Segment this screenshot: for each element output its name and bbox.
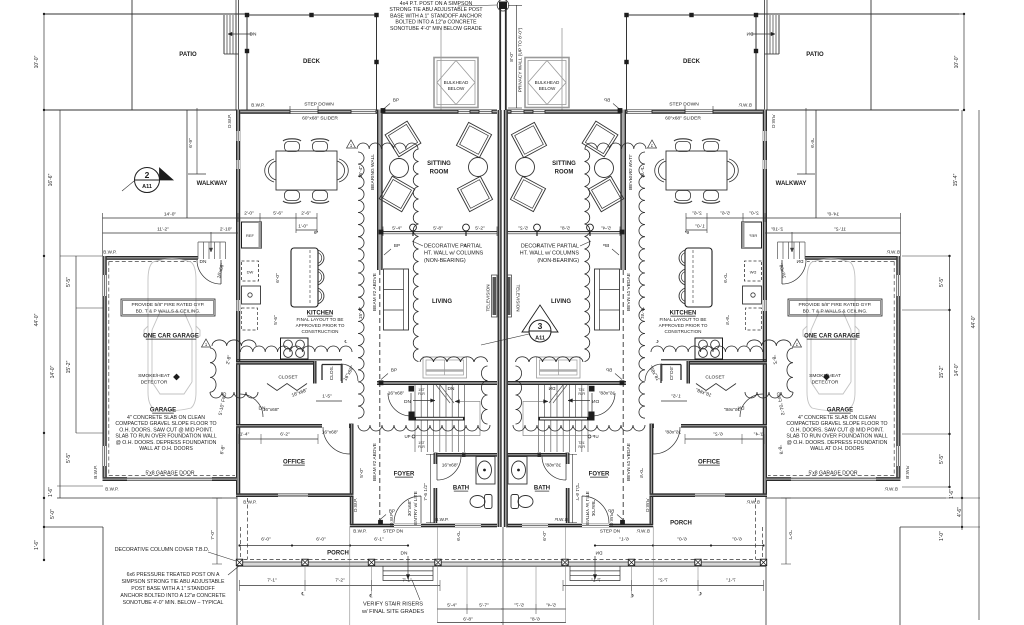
svg-text:℄: ℄: [344, 339, 348, 344]
svg-text:REF: REF: [246, 233, 255, 238]
wall: bath west: [434, 453, 438, 464]
step-down tick marks: [289, 106, 291, 114]
svg-text:FINAL LAYOUT TO BE: FINAL LAYOUT TO BE: [297, 317, 344, 322]
svg-text:1'-4": 1'-4": [240, 432, 250, 438]
entry door opening: [394, 524, 421, 527]
stair window bay above: [423, 357, 467, 378]
deck post: [245, 49, 249, 53]
island stool: [318, 269, 324, 285]
svg-text:5'-0": 5'-0": [359, 468, 365, 478]
svg-text:WALL AT O.H. DOORS: WALL AT O.H. DOORS: [810, 446, 864, 452]
deck post: [309, 13, 313, 17]
svg-text:B.W.P.: B.W.P.: [435, 517, 448, 522]
svg-text:SIMPSON STRONG TIE ABU ADJUSTA: SIMPSON STRONG TIE ABU ADJUSTABLE: [121, 579, 225, 585]
svg-text:15'-9": 15'-9": [358, 307, 364, 320]
svg-text:BELOW: BELOW: [448, 86, 465, 91]
svg-text:CLOS.: CLOS.: [329, 366, 335, 380]
wall: south entry wall: [350, 524, 497, 528]
bearing point square: [381, 108, 386, 113]
left dim extension: [76, 432, 103, 434]
stair DN arrow: [413, 400, 435, 402]
door: small closet swing: [341, 364, 358, 381]
car outline (garage): [144, 259, 200, 411]
bulkhead leader vertical: [440, 28, 442, 110]
svg-text:TELEVISION: TELEVISION: [486, 284, 491, 311]
wall: small closet: [322, 365, 342, 384]
svg-text:CLOSET: CLOSET: [278, 375, 297, 381]
door: closet bifold chevrons: [267, 384, 307, 391]
svg-text:SLAB TO RUN OVER FOUNDATION WA: SLAB TO RUN OVER FOUNDATION WALL: [115, 434, 216, 440]
left dim extension: [60, 255, 103, 257]
sitting dim line: [383, 228, 497, 230]
wall: foyer north: [377, 381, 497, 385]
svg-text:4" CONCRETE SLAB ON CLEAN: 4" CONCRETE SLAB ON CLEAN: [127, 415, 205, 421]
vertical guide below bath: [437, 527, 439, 623]
window/slider opening in north wall: [290, 110, 318, 113]
bearing point square: [379, 230, 384, 235]
svg-text:6'-0": 6'-0": [542, 531, 548, 541]
right dim tick: [948, 309, 950, 311]
sitting room chair: [457, 176, 492, 211]
svg-text:WALKWAY: WALKWAY: [197, 181, 228, 187]
dim line office: [239, 438, 318, 440]
property vertical x=103 to bottom: [102, 527, 104, 625]
svg-text:DETECTOR: DETECTOR: [141, 380, 168, 386]
porch post: [368, 559, 374, 565]
svg-text:15'-2": 15'-2": [939, 365, 945, 378]
dining chair side: [337, 161, 345, 180]
wall: office east extension to porch: [350, 497, 354, 524]
svg-text:BEARING WALL: BEARING WALL: [370, 154, 376, 190]
porch post drop lines: [304, 566, 306, 586]
svg-text:OFFICE: OFFICE: [698, 460, 720, 466]
svg-text:BP: BP: [393, 98, 399, 103]
dim line closet: [316, 400, 342, 402]
sitting room side table: [390, 159, 409, 178]
privacy wall post (top): [499, 2, 507, 10]
svg-text:DETECTOR: DETECTOR: [812, 380, 839, 386]
door: entry swing: [394, 496, 421, 523]
svg-text:44'-0": 44'-0": [971, 315, 977, 328]
svg-text:ONE CAR GARAGE: ONE CAR GARAGE: [804, 334, 860, 340]
svg-text:15'-2": 15'-2": [66, 360, 72, 373]
svg-text:10'-0": 10'-0": [34, 55, 40, 68]
garage wall inner dashed line: [108, 262, 110, 476]
dim line bottom center row1: [437, 608, 502, 610]
svg-text:TELEVISION: TELEVISION: [516, 284, 521, 311]
svg-text:STEP DN: STEP DN: [383, 529, 403, 534]
window opening in west wall: [237, 300, 240, 311]
svg-text:WALL AT O.H. DOORS: WALL AT O.H. DOORS: [139, 446, 193, 452]
triangle flag 1 (garage): [202, 339, 211, 347]
svg-text:w/ FINAL SITE GRADES: w/ FINAL SITE GRADES: [361, 609, 424, 615]
svg-text:@ O.H. DOORS. DEPRESS FOUNDAT: @ O.H. DOORS. DEPRESS FOUNDATION: [116, 440, 217, 446]
bath sink bowl: [478, 461, 492, 479]
right dim tick: [963, 109, 965, 111]
leader 6x6 note: [228, 566, 239, 575]
svg-text:ENTRY w/ LITE: ENTRY w/ LITE: [413, 491, 419, 525]
sitting room chair: [379, 176, 415, 212]
wall: office north: [236, 424, 322, 428]
island stool: [318, 250, 324, 266]
svg-text:B.W.P.: B.W.P.: [103, 250, 116, 255]
svg-text:BATH: BATH: [534, 486, 550, 492]
svg-text:UP: UP: [404, 434, 410, 439]
bulkhead below: outer rect: [434, 58, 478, 108]
svg-text:5'-5": 5'-5": [66, 453, 72, 463]
wall: office south: [236, 493, 354, 497]
right dim tick: [961, 526, 963, 528]
svg-text:PATIO: PATIO: [806, 52, 824, 58]
island stool: [318, 288, 324, 304]
svg-text:HT. WALL w/ COLUMNS: HT. WALL w/ COLUMNS: [424, 251, 484, 257]
dining chair side: [268, 161, 276, 180]
partial wall dim line: [382, 227, 384, 237]
svg-text:DN: DN: [259, 406, 266, 412]
svg-text:5'-8": 5'-8": [433, 226, 443, 232]
yard line at y=498: [57, 497, 237, 499]
dim line porch row1: [240, 545, 409, 547]
svg-text:1'-5": 1'-5": [322, 394, 332, 400]
dim line porch row2: [240, 585, 441, 587]
svg-text:HT. WALL w/ COLUMNS: HT. WALL w/ COLUMNS: [520, 251, 580, 257]
svg-text:PROVIDE 5/8" FIRE RATED GYP.: PROVIDE 5/8" FIRE RATED GYP.: [132, 302, 205, 308]
svg-text:BP: BP: [394, 243, 400, 248]
porch front edge dashed: [237, 559, 502, 561]
svg-text:FLR: FLR: [418, 445, 425, 449]
bulkhead below: inner rect: [437, 61, 475, 105]
kitchen island: [291, 248, 318, 307]
svg-text:6'-8": 6'-8": [463, 617, 473, 623]
right dim vertical inner: [949, 256, 951, 487]
window/slider opening in north wall: [351, 110, 376, 113]
svg-text:STEP DN: STEP DN: [600, 529, 620, 534]
section marker 3/A11: [522, 305, 558, 332]
svg-text:B.W.P.: B.W.P.: [93, 465, 98, 478]
garage door opening: [127, 477, 212, 480]
svg-text:CONSTRUCTION: CONSTRUCTION: [664, 329, 701, 334]
svg-text:GARAGE: GARAGE: [827, 408, 853, 414]
door jambs bath north: [434, 453, 438, 457]
door: kitchen hall swing: [323, 427, 350, 454]
left dim tick: [43, 255, 45, 257]
svg-text:ROOM: ROOM: [555, 170, 574, 176]
svg-text:15'-4": 15'-4": [358, 166, 364, 179]
svg-text:7'-6 1/2": 7'-6 1/2": [423, 483, 429, 501]
svg-text:DN: DN: [250, 32, 257, 38]
svg-text:(NON-BEARING): (NON-BEARING): [424, 258, 466, 264]
stove: [281, 338, 309, 359]
stair break diagonals: [436, 385, 450, 403]
svg-text:5'-6": 5'-6": [273, 315, 279, 325]
svg-text:30"x68": 30"x68": [407, 499, 413, 516]
fire-rated note box: [788, 299, 882, 316]
kitchen sink: [242, 286, 261, 304]
svg-text:FOYER: FOYER: [394, 472, 415, 478]
svg-text:DN: DN: [404, 399, 411, 405]
revision cloud around bearing wall / kitchen: [358, 152, 364, 418]
kitchen counter edge: [237, 359, 342, 361]
svg-text:2'-6": 2'-6": [301, 211, 311, 217]
svg-text:BULKHEAD: BULKHEAD: [444, 80, 469, 85]
porch steps: [383, 566, 433, 580]
revision cloud top of stairs: [420, 357, 488, 362]
svg-text:PORCH: PORCH: [670, 521, 692, 527]
door: foyer-kitchen swing: [388, 393, 411, 416]
window/slider opening in north wall: [479, 110, 492, 113]
right dim tick: [963, 13, 965, 15]
svg-text:A11: A11: [142, 184, 152, 190]
walkway west boundary line: [186, 110, 188, 218]
svg-text:6'-0": 6'-0": [316, 537, 326, 543]
svg-text:1'-6": 1'-6": [34, 540, 40, 550]
svg-text:BD. T & P WALLS & CEILING.: BD. T & P WALLS & CEILING.: [803, 309, 868, 315]
dining chair: [313, 191, 328, 201]
svg-text:2'-10": 2'-10": [220, 227, 233, 233]
svg-text:LIVING: LIVING: [551, 299, 571, 305]
leader from post note: [458, 5, 497, 6]
svg-text:44'-0": 44'-0": [34, 313, 40, 326]
svg-text:O.H. DOORS. SAW CUT @ MID POIN: O.H. DOORS. SAW CUT @ MID POINT.: [119, 427, 212, 433]
porch post: [435, 559, 441, 565]
section marker 2/A11: [135, 168, 160, 193]
walkway dim: [196, 108, 198, 174]
svg-text:KITCHEN: KITCHEN: [670, 311, 697, 317]
svg-text:SONOTUBE 4'-0" MIN BELOW GRADE: SONOTUBE 4'-0" MIN BELOW GRADE: [390, 26, 482, 32]
decorative partial-height wall: [383, 231, 497, 233]
svg-text:FINAL LAYOUT TO BE: FINAL LAYOUT TO BE: [660, 317, 707, 322]
svg-text:PORCH: PORCH: [327, 551, 349, 557]
right dim tick: [948, 486, 950, 488]
patio stair side: [223, 15, 225, 54]
wall: bath north: [434, 453, 498, 457]
svg-text:ONE CAR GARAGE: ONE CAR GARAGE: [143, 334, 199, 340]
dining chair: [285, 142, 300, 152]
svg-text:7'-1": 7'-1": [267, 578, 277, 584]
dining table: [276, 151, 337, 190]
right unit (mirrored copy of left unit): [455, 0, 960, 625]
porch post: [302, 559, 308, 565]
svg-text:FOYER: FOYER: [589, 472, 610, 478]
revision cloud top chain: [357, 143, 418, 149]
window opening in west wall: [237, 131, 240, 141]
smoke detector symbol: [174, 374, 180, 380]
svg-text:BD. T & P WALLS & CEILING.: BD. T & P WALLS & CEILING.: [136, 309, 201, 315]
left dim tick: [43, 559, 45, 561]
svg-text:PRIVACY WALL (UP TO 8'-0"): PRIVACY WALL (UP TO 8'-0"): [518, 27, 524, 92]
window opening in west wall: [237, 160, 240, 169]
wall: office east: [350, 424, 354, 497]
right dim extension: [960, 526, 980, 528]
bath sink counter: [476, 457, 495, 485]
dim line kitchen sub: [296, 229, 317, 231]
dining chair: [313, 142, 328, 152]
left dim vertical inner2: [75, 256, 77, 433]
svg-text:COMPACTED GRAVEL SLOPE FLOOR T: COMPACTED GRAVEL SLOPE FLOOR TO: [115, 421, 216, 427]
window opening in office south wall: [278, 494, 308, 497]
left dim tick: [43, 432, 45, 434]
left dim vertical 44'-0": [43, 14, 45, 560]
column on partial wall: [463, 224, 470, 231]
svg-text:5'x8 GARAGE DOOR: 5'x8 GARAGE DOOR: [145, 471, 194, 477]
porch front band: [237, 562, 502, 566]
deck outline: [247, 15, 377, 110]
base cabinets (dashed): [242, 308, 258, 330]
svg-text:SMOKE/HEAT: SMOKE/HEAT: [809, 373, 841, 379]
svg-text:BEAM #2 ABOVE: BEAM #2 ABOVE: [372, 443, 378, 481]
svg-text:16"x68": 16"x68": [322, 430, 339, 436]
svg-text:B.W.P.: B.W.P.: [243, 500, 256, 505]
svg-text:APPROVED PRIOR TO: APPROVED PRIOR TO: [296, 323, 345, 328]
left dim extension: [76, 307, 103, 309]
svg-text:BP: BP: [389, 509, 395, 514]
dim line bottom center row2: [437, 622, 502, 624]
svg-text:5'-5": 5'-5": [939, 277, 945, 287]
svg-text:15'-4": 15'-4": [953, 173, 959, 186]
svg-text:DN: DN: [401, 551, 408, 557]
stair stringer bar: [415, 417, 465, 421]
svg-text:14'-0": 14'-0": [50, 365, 56, 378]
svg-text:APPROVED PRIOR TO: APPROVED PRIOR TO: [659, 323, 708, 328]
svg-text:5'-6": 5'-6": [273, 211, 283, 217]
dishwasher (dashed): [242, 261, 259, 281]
right dim vertical top: [963, 14, 965, 110]
wall: closet north: [236, 361, 317, 365]
svg-text:6'-2": 6'-2": [280, 432, 290, 438]
svg-text:SMOKE/HEAT: SMOKE/HEAT: [138, 373, 170, 379]
svg-text:16"x68": 16"x68": [388, 391, 405, 397]
right dim vertical 14'-0": [961, 110, 963, 530]
svg-text:BASE WITH A 1" STANDOFF ANCHOR: BASE WITH A 1" STANDOFF ANCHOR: [390, 13, 482, 19]
svg-text:VERIFY STAIR RISERS: VERIFY STAIR RISERS: [363, 602, 423, 608]
svg-text:DN: DN: [200, 259, 207, 265]
svg-text:SLAB TO RUN OVER FOUNDATION WA: SLAB TO RUN OVER FOUNDATION WALL: [786, 434, 887, 440]
toilet: [470, 496, 485, 508]
site line: patio left vertical: [131, 0, 133, 110]
svg-text:5'-5": 5'-5": [939, 454, 945, 464]
left dim tick: [43, 526, 45, 528]
privacy wall above units: [499, 9, 501, 110]
porch post: [236, 559, 242, 565]
svg-text:B.W.P.: B.W.P.: [251, 103, 264, 108]
svg-text:11'-2": 11'-2": [157, 227, 169, 233]
patio stair treads: [223, 15, 225, 54]
left unit graphics: [43, 0, 548, 625]
svg-text:CLOSET: CLOSET: [705, 375, 724, 381]
yard line at y=527: [43, 526, 103, 528]
svg-text:1'-6": 1'-6": [949, 489, 955, 499]
svg-text:4" CONCRETE SLAB ON CLEAN: 4" CONCRETE SLAB ON CLEAN: [798, 415, 876, 421]
television: [493, 277, 497, 315]
svg-text:ANCHOR BOLTED INTO A 12"ø CONC: ANCHOR BOLTED INTO A 12"ø CONCRETE: [120, 593, 226, 599]
svg-text:DECK: DECK: [683, 59, 701, 65]
svg-text:3: 3: [538, 321, 543, 331]
svg-text:FLR: FLR: [418, 392, 425, 396]
revision cloud right chain: [413, 149, 418, 362]
party wall (double) between units: [498, 110, 502, 527]
window opening in bath south wall: [455, 524, 481, 527]
right dim extension: [902, 433, 950, 435]
dining chair: [285, 191, 300, 201]
svg-text:(NON-BEARING): (NON-BEARING): [537, 258, 579, 264]
leader decorative wall L: [412, 241, 423, 246]
sitting room chair: [385, 121, 421, 157]
svg-text:STEP DOWN: STEP DOWN: [669, 102, 699, 108]
svg-text:SONOTUBE 4'-0" MIN. BELOW – TY: SONOTUBE 4'-0" MIN. BELOW – TYPICAL: [123, 600, 224, 606]
svg-text:2: 2: [145, 170, 150, 180]
svg-text:4x4 P.T. POST ON A SIMPSON: 4x4 P.T. POST ON A SIMPSON: [400, 1, 473, 7]
svg-text:D.W.P.: D.W.P.: [389, 512, 394, 526]
dim line garage/kitchen top: [103, 217, 318, 219]
stair guide outline: [415, 401, 481, 435]
svg-text:60"x68" SLIDER: 60"x68" SLIDER: [665, 116, 701, 122]
svg-text:SITTING: SITTING: [427, 161, 451, 167]
door: garage entry swing: [197, 260, 221, 284]
bath dim line: [430, 454, 432, 523]
svg-text:BATH: BATH: [453, 486, 469, 492]
svg-text:1'-0": 1'-0": [298, 224, 308, 230]
svg-text:6": 6": [314, 230, 319, 236]
svg-text:DECORATIVE COLUMN COVER T.B.D.: DECORATIVE COLUMN COVER T.B.D.: [115, 547, 210, 553]
svg-text:4'-6": 4'-6": [957, 507, 963, 517]
column on partial wall: [410, 224, 417, 231]
dim line garage second: [103, 232, 239, 234]
svg-text:ROOM: ROOM: [430, 170, 449, 176]
right dim tick: [948, 255, 950, 257]
party wall line below porch: [502, 527, 504, 625]
revision cloud at garage closet: [210, 348, 216, 392]
site line: yard horizontal under patio: [44, 109, 237, 111]
right dim tick: [948, 433, 950, 435]
svg-text:PATIO: PATIO: [179, 52, 197, 58]
privacy fence between patio and deck: [235, 0, 237, 110]
leader decorative wall R: [580, 241, 591, 246]
left dim tick: [43, 109, 45, 111]
patio stair DN arrow: [228, 33, 252, 35]
svg-text:LIVING: LIVING: [432, 299, 452, 305]
revision cloud bottom run: [358, 425, 490, 431]
svg-text:WALKWAY: WALKWAY: [776, 181, 807, 187]
right top dim extension: [875, 13, 964, 15]
svg-text:60"x68" SLIDER: 60"x68" SLIDER: [302, 116, 338, 122]
svg-text:COMPACTED GRAVEL SLOPE FLOOR T: COMPACTED GRAVEL SLOPE FLOOR TO: [786, 421, 887, 427]
sitting room chair: [456, 122, 491, 157]
svg-text:5'-5": 5'-5": [66, 277, 72, 287]
vertical guide below office: [349, 527, 351, 625]
svg-text:2'-0": 2'-0": [244, 211, 254, 217]
deck post: [374, 60, 378, 64]
wall: garage south: [103, 477, 238, 481]
svg-text:BULKHEAD: BULKHEAD: [535, 80, 560, 85]
svg-text:5'-0": 5'-0": [50, 509, 56, 519]
door: stair door jamb: [409, 386, 415, 392]
fire-rated note box: [121, 299, 215, 316]
svg-text:10'-0": 10'-0": [954, 55, 960, 68]
garage-kitchen steps: [197, 242, 199, 259]
svg-text:16'-6": 16'-6": [48, 173, 54, 186]
window opening in garage west wall: [103, 446, 106, 466]
svg-text:O.H. DOORS. SAW CUT @ MID POIN: O.H. DOORS. SAW CUT @ MID POINT.: [790, 427, 883, 433]
sitting room side table: [469, 158, 488, 177]
revision cloud right side of stairs: [481, 366, 487, 424]
svg-text:5'-2": 5'-2": [475, 226, 485, 232]
svg-text:1'-0": 1'-0": [939, 531, 945, 541]
right dim extension: [946, 497, 980, 499]
right dim extension: [902, 255, 950, 257]
right dim extension: [902, 486, 950, 488]
svg-text:BOLTED INTO A 12"ø CONCRETE: BOLTED INTO A 12"ø CONCRETE: [395, 20, 477, 26]
right dim extension: [902, 309, 950, 311]
